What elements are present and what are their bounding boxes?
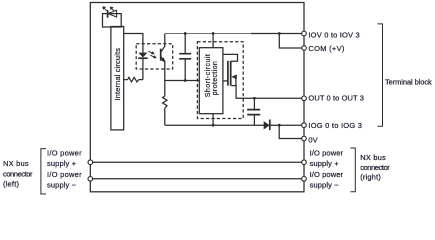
svg-text:Short-circuit: Short-circuit	[205, 54, 212, 97]
svg-text:protection: protection	[212, 61, 219, 95]
svg-text:IOG 0 to IOG 3: IOG 0 to IOG 3	[308, 121, 362, 130]
svg-text:I/O power: I/O power	[47, 170, 82, 179]
svg-text:I/O power: I/O power	[47, 148, 82, 157]
svg-text:Terminal block: Terminal block	[385, 77, 432, 86]
svg-text:supply +: supply +	[310, 159, 340, 168]
svg-text:supply −: supply −	[310, 181, 340, 190]
svg-text:(left): (left)	[3, 179, 20, 188]
svg-text:I/O power: I/O power	[310, 148, 344, 157]
svg-text:NX bus: NX bus	[360, 153, 386, 162]
svg-text:COM (+V): COM (+V)	[308, 44, 345, 53]
svg-text:NX bus: NX bus	[3, 159, 29, 168]
svg-text:I/O power: I/O power	[310, 170, 344, 179]
svg-text:0V: 0V	[308, 136, 317, 145]
svg-text:connector: connector	[3, 169, 33, 178]
svg-text:OUT 0 to OUT 3: OUT 0 to OUT 3	[308, 94, 364, 103]
svg-text:connector: connector	[360, 163, 390, 172]
svg-text:(right): (right)	[360, 172, 381, 181]
svg-text:supply −: supply −	[47, 181, 77, 190]
svg-text:Internal circuits: Internal circuits	[113, 48, 122, 101]
svg-text:supply +: supply +	[47, 159, 77, 168]
svg-text:IOV 0 to IOV 3: IOV 0 to IOV 3	[308, 31, 359, 40]
